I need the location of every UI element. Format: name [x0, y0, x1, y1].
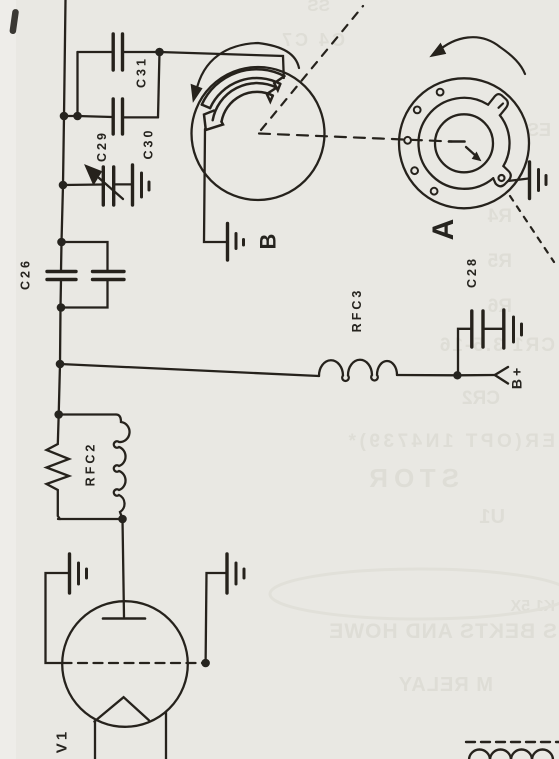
svg-text:R4: R4: [487, 206, 512, 227]
wire bus between C26 plates and down to RFC2: [59, 280, 61, 415]
dashed line from A tab to lower right: [510, 196, 554, 262]
svg-text:C28: C28: [465, 256, 479, 288]
svg-text:B+: B+: [509, 365, 525, 389]
svg-text:R6: R6: [488, 296, 512, 317]
svg-text:ES: ES: [527, 120, 551, 140]
svg-text:V1: V1: [54, 729, 71, 753]
dashed axis diagonal from B: [261, 6, 363, 130]
wire junction to B+ terminal: [457, 374, 494, 377]
capacitor C28: [458, 311, 503, 375]
ground (C28): [504, 310, 522, 348]
inductor RFC3: [319, 360, 397, 381]
stator A mounting holes: [404, 89, 443, 195]
wire tube left to ground: [46, 573, 69, 663]
svg-text:R5: R5: [487, 251, 512, 272]
rotor B outer circle: [192, 67, 325, 200]
tab on inner band left end: [204, 111, 223, 131]
center mark (A): [449, 140, 465, 143]
rotation arrow (A): [437, 37, 525, 74]
svg-text:STOR: STOR: [363, 463, 459, 493]
tube plate bar: [103, 617, 145, 620]
wire main bus vertical: [61, 0, 66, 271]
svg-text:CR2: CR2: [462, 388, 500, 409]
capacitor C26 (two in parallel): [47, 242, 124, 308]
inductor RFC2 coil: [59, 415, 130, 520]
svg-text:CR1 3.5-16: CR1 3.5-16: [438, 335, 555, 356]
capacitor C29 (variable): [63, 165, 131, 205]
wire C31 left leg: [76, 52, 78, 116]
stator A upper terminal tab: [488, 94, 508, 115]
wire tube leg right: [165, 712, 167, 759]
tube grid dashed: [63, 662, 206, 664]
wire plate lead to tube: [123, 519, 125, 617]
rotation arrow (B): [196, 43, 299, 92]
wire C31 right leg down to C30 row: [158, 52, 160, 117]
tube cathode heater: [94, 697, 148, 721]
rotor B outer plate band: [202, 69, 285, 108]
wire RFC3 row: [60, 364, 319, 376]
wire from C31 junction to rotor B corner: [160, 52, 284, 78]
wire tube leg left: [94, 722, 96, 759]
resistor RFC2 (parallel R): [47, 415, 70, 520]
dashed line bottom right: [466, 741, 559, 743]
page edge mark top left: [9, 9, 19, 35]
svg-text:M RELAY: M RELAY: [398, 674, 493, 696]
rotor position arrow (A): [466, 147, 476, 156]
svg-text:C26: C26: [19, 258, 33, 290]
wire RFC2 bottom: [58, 518, 123, 520]
rotor B inner plate band: [204, 83, 277, 130]
ground (stator A): [530, 162, 547, 199]
bleed-through mirrored text from reverse page: [270, 0, 559, 696]
svg-text:A: A: [427, 216, 460, 241]
svg-text:C31: C31: [135, 56, 149, 88]
svg-text:C29: C29: [95, 130, 109, 162]
ground (tube left): [70, 554, 87, 593]
svg-text:B: B: [256, 231, 281, 250]
svg-text:C30: C30: [142, 128, 156, 160]
svg-text:RFC2: RFC2: [84, 442, 98, 487]
tube V1 envelope: [62, 601, 188, 727]
svg-text:ER(OPT 1N4739)*: ER(OPT 1N4739)*: [345, 431, 555, 452]
wire RFC3 to junction: [397, 374, 457, 377]
dashed axis horizontal B to A: [259, 134, 452, 142]
wire tube grid right to ground: [206, 573, 226, 663]
stator A middle ring with gaps: [500, 115, 510, 166]
ground (rotor B): [228, 224, 244, 261]
capacitor C31: [78, 34, 160, 70]
coil fragment bottom right: [469, 750, 553, 759]
stator A inner circle: [435, 114, 493, 172]
stator A lower terminal tab: [493, 166, 511, 186]
ground (tube right): [227, 554, 244, 593]
stator A outer circle: [399, 78, 529, 208]
ground (C29): [133, 165, 150, 205]
wire tab to ground (A): [508, 179, 529, 182]
svg-text:RFC3: RFC3: [350, 288, 364, 333]
terminal B+ chevron: [495, 367, 508, 384]
svg-text:S BEKTS AND HOWE: S BEKTS AND HOWE: [328, 620, 557, 643]
svg-text:SS: SS: [307, 0, 330, 15]
svg-text:U1: U1: [479, 506, 505, 528]
wire rotor B to ground: [204, 129, 226, 242]
capacitor C30: [64, 99, 158, 134]
